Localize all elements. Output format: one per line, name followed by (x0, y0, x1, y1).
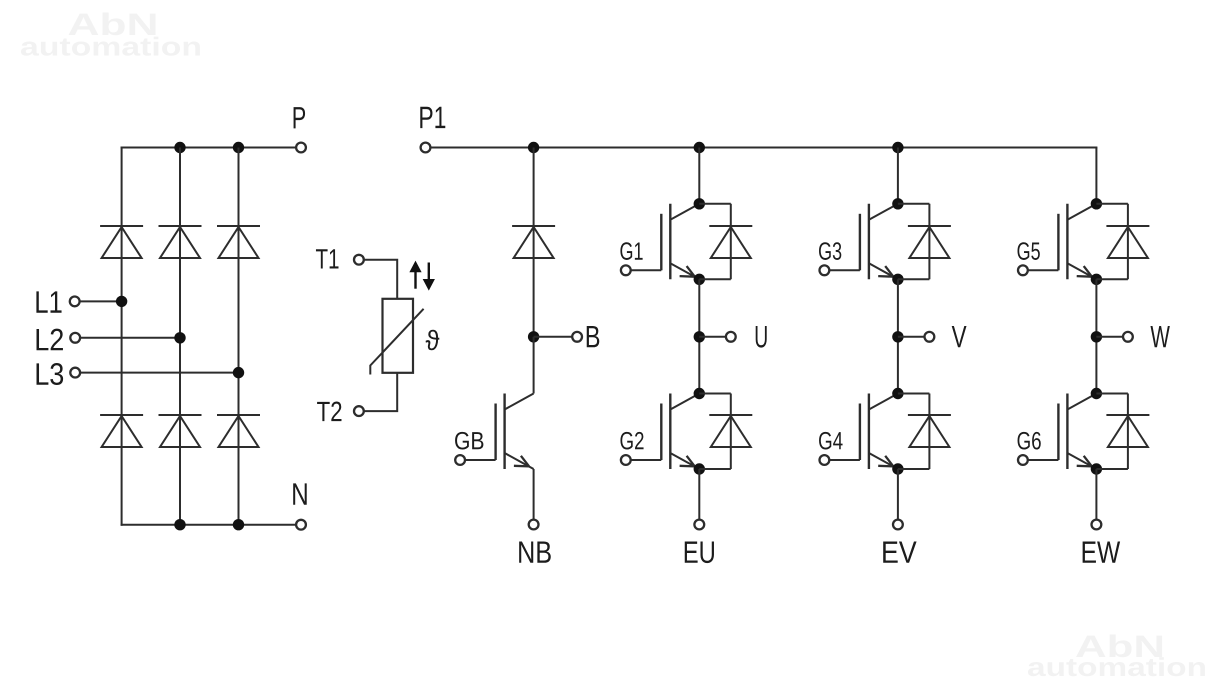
node: G4 collector junction (892, 388, 903, 399)
node: L3 junction (233, 367, 244, 378)
wire: G3 gate lead and terminal (829, 269, 860, 271)
transistor G4 (low-side IGBT, phase V) (859, 404, 861, 461)
diode: freewheel diode across G5 (1096, 203, 1128, 205)
watermark top left (69, 13, 156, 36)
wire: G5 gate lead and terminal (1027, 269, 1058, 271)
diode D5 (upper, L3 column) (217, 225, 260, 227)
label G5 (1018, 242, 1040, 260)
label G4 (819, 432, 843, 450)
terminal N (296, 520, 306, 530)
label U (756, 326, 767, 348)
node: bottom rail / column 3 junction (233, 519, 244, 530)
terminal NB (529, 520, 539, 530)
transistor G1 (high-side IGBT, phase U) (660, 214, 662, 270)
wire: G2 emitter to EU (698, 469, 700, 520)
wire: phase W midpoint (1095, 279, 1097, 393)
terminal W (1123, 332, 1133, 342)
diode: freewheel diode across G4 (898, 393, 930, 395)
wire: phase V branch from P1 bus (897, 148, 899, 204)
wire: brake emitter to NB (533, 469, 535, 520)
node: G6 emitter junction (1091, 463, 1102, 474)
transistor G3 (high-side IGBT, phase V) (859, 214, 861, 270)
node: G3 emitter junction (892, 274, 903, 285)
transistor GB (brake chopper IGBT) (494, 404, 496, 461)
node: L2 junction (174, 332, 185, 343)
wire: rectifier column 2 (L2 leg) (179, 148, 181, 525)
node: P1 bus / brake branch junction (528, 142, 539, 153)
wire: G6 emitter to EW (1095, 469, 1097, 520)
wire: phase U midpoint (698, 279, 700, 393)
node: phase U output junction (694, 331, 705, 342)
node: G2 emitter junction (694, 463, 705, 474)
terminal T2 (354, 406, 364, 416)
diode: freewheel diode across G3 (898, 203, 930, 205)
label NB (519, 541, 551, 562)
label G6 (1018, 432, 1041, 450)
terminal EU (694, 520, 704, 530)
wire: G6 gate lead and terminal (1027, 459, 1058, 461)
terminal L1 (70, 297, 80, 307)
wire: phase W branch from P1 bus (1095, 148, 1097, 204)
diode D6 (lower, L2 column) (159, 414, 202, 416)
label GB (455, 432, 483, 450)
label W (1150, 326, 1169, 347)
node: G5 collector junction (1091, 198, 1102, 209)
terminal P (296, 143, 306, 153)
wire: rectifier column 3 (L3 leg) (238, 148, 240, 525)
watermark bottom right (1076, 635, 1162, 658)
terminal P1 (421, 143, 431, 153)
node: top rail / column 3 junction (233, 142, 244, 153)
node: G3 collector junction (892, 198, 903, 209)
label V (952, 326, 967, 347)
wire: G4 emitter to EV (897, 469, 899, 520)
terminal V (925, 332, 935, 342)
label G1 (620, 242, 642, 260)
wire: T1 lead (364, 260, 398, 299)
label EW (1083, 541, 1121, 562)
wire: L1 to column 1 (79, 300, 121, 302)
node: bottom rail / column 2 junction (174, 519, 185, 530)
node: phase V output junction (892, 331, 903, 342)
terminal L3 (70, 368, 80, 378)
terminal U (726, 332, 736, 342)
node: G5 emitter junction (1091, 274, 1102, 285)
label L3 (37, 363, 64, 385)
wire: L3 to column 3 (80, 372, 239, 374)
terminal EW (1092, 520, 1102, 530)
wire: phase W output stub (1096, 336, 1123, 338)
wire: G1 gate lead and terminal (630, 269, 661, 271)
wire: brake branch from P1 bus to node B (533, 148, 535, 337)
wire: rectifier column 1 (L1 leg) (121, 147, 123, 526)
node: G2 collector junction (694, 388, 705, 399)
wire: phase U branch from P1 bus (698, 148, 700, 204)
wire: node B to brake IGBT collector (533, 337, 535, 394)
wire: phase V output stub (898, 336, 925, 338)
thermistor RT1 NTC diagonal (370, 309, 423, 375)
transistor G6 (low-side IGBT, phase W) (1057, 404, 1059, 461)
label theta (thermistor) (426, 330, 440, 351)
node: L1 junction (116, 296, 127, 307)
node B junction (528, 331, 539, 342)
label T2 (317, 402, 341, 422)
node: P1 bus / phase V branch junction (892, 142, 903, 153)
wire: phase V midpoint (897, 279, 899, 393)
node: G1 emitter junction (694, 274, 705, 285)
label EU (685, 541, 714, 563)
diode D2 (lower, L3 column) (217, 414, 260, 416)
node: G6 collector junction (1091, 388, 1102, 399)
node: phase W output junction (1091, 331, 1102, 342)
wire: L2 to column 2 (80, 337, 180, 339)
terminal L2 (70, 333, 80, 343)
label N (293, 483, 307, 504)
label L1 (36, 291, 61, 312)
thermistor RT1 body (383, 299, 414, 373)
wire: G2 gate lead and terminal (630, 459, 661, 461)
diode: freewheel diode across G6 (1096, 393, 1128, 395)
terminal T1 (354, 255, 364, 265)
label G3 (819, 242, 841, 260)
thermistor temperature arrows (414, 268, 416, 289)
terminal B (572, 332, 582, 342)
wire: P bus (top rail of rectifier) (121, 147, 297, 149)
wire: N bus (bottom rail of rectifier) (121, 524, 297, 526)
label P (294, 107, 305, 128)
wire: node B stub (534, 336, 573, 338)
label G2 (620, 432, 643, 450)
terminal EV (893, 520, 903, 530)
diode D7 (brake chopper diode) (512, 225, 555, 227)
wire: G4 gate lead and terminal (829, 459, 860, 461)
label P1 (420, 107, 445, 128)
transistor G5 (high-side IGBT, phase W) (1057, 214, 1059, 270)
label T1 (316, 249, 339, 268)
label B (587, 326, 600, 347)
node: G1 collector junction (694, 198, 705, 209)
diode: freewheel diode across G1 (699, 203, 731, 205)
diode D3 (upper, L2 column) (159, 225, 202, 227)
diode: freewheel diode across G2 (699, 393, 731, 395)
node: top rail / column 2 junction (174, 142, 185, 153)
node: P1 bus / phase U branch junction (694, 142, 705, 153)
diode D4 (lower, L1 column) (100, 414, 143, 416)
node: G4 emitter junction (892, 463, 903, 474)
wire: T2 lead (364, 373, 398, 411)
wire: phase U output stub (699, 336, 726, 338)
diode D1 (upper, L1 column) (100, 225, 143, 227)
transistor G2 (low-side IGBT, phase U) (660, 404, 662, 461)
label EV (883, 541, 916, 562)
wire: P1 bus (430, 147, 1097, 149)
wire: GB gate lead and terminal (464, 459, 495, 461)
label L2 (37, 329, 63, 351)
